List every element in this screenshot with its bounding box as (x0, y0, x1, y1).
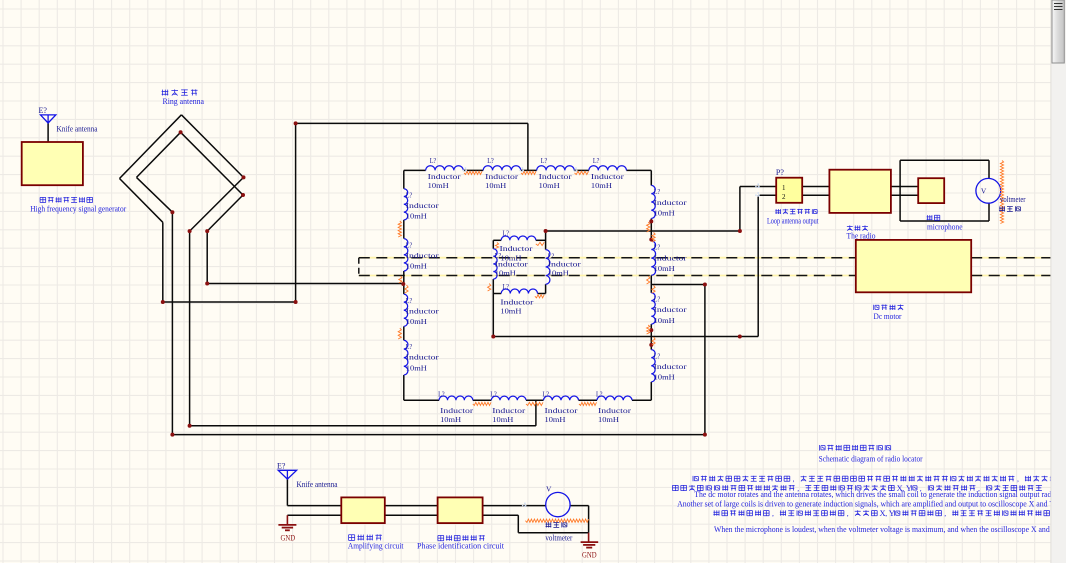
wire (651, 284, 705, 286)
wire (385, 514, 438, 516)
svg-text:Inductor: Inductor (539, 172, 573, 181)
svg-text:10mH: 10mH (406, 317, 428, 326)
inductor L? bottom row 3 (544, 396, 579, 400)
svg-text:10mH: 10mH (654, 316, 676, 325)
junction (294, 121, 298, 125)
wire ring antenna inner top-right (181, 132, 243, 195)
wire (650, 382, 652, 400)
svg-text:,: , (944, 509, 946, 518)
wire (802, 186, 829, 188)
svg-text:L?: L? (596, 390, 603, 399)
wire (521, 169, 537, 171)
svg-text:,: , (793, 475, 795, 484)
motor shaft dashed line upper (359, 257, 856, 259)
scrollbar track (1051, 0, 1066, 563)
ghost marker (755, 192, 761, 198)
inductor L? left column 2 (404, 239, 408, 271)
wire (287, 514, 341, 516)
knife antenna E? top-left symbol (41, 115, 56, 123)
label ring antenna chinese (162, 90, 169, 96)
inductor L? top row 2 (483, 166, 521, 171)
inductor L? left column 3 (404, 294, 408, 326)
error marker (647, 325, 650, 334)
wire (570, 505, 589, 507)
title chinese: schematic diagram of radio locator (820, 445, 826, 451)
dashed line left closure (358, 258, 360, 276)
svg-text:L?: L? (593, 156, 600, 165)
wire (740, 186, 776, 188)
svg-text:Dc motor: Dc motor (874, 311, 902, 321)
wire (802, 194, 829, 196)
label loop antenna output chinese (775, 209, 781, 214)
wire (493, 336, 758, 338)
wire (704, 285, 706, 435)
svg-text:High frequency signal generato: High frequency signal generator (30, 204, 126, 214)
svg-text:V: V (546, 484, 552, 493)
svg-text:,: , (1017, 475, 1019, 484)
svg-text:L?: L? (490, 390, 497, 399)
wire (492, 279, 494, 293)
wire (189, 231, 191, 426)
svg-text:Inductor: Inductor (495, 259, 529, 268)
svg-text:,: , (847, 509, 849, 518)
svg-text:E?: E? (277, 461, 286, 470)
error marker (398, 221, 401, 237)
error marker (526, 402, 543, 405)
svg-text:voltmeter: voltmeter (545, 534, 572, 543)
junction (161, 300, 165, 304)
svg-text:Inductor: Inductor (406, 307, 440, 316)
svg-text:Phase identification circuit: Phase identification circuit (417, 540, 505, 550)
svg-text:10mH: 10mH (406, 363, 428, 372)
ground GND bottom-right (588, 533, 590, 542)
junction (179, 130, 183, 134)
junction (649, 238, 653, 242)
svg-text:Inductor: Inductor (548, 259, 582, 268)
inductor L? bottom row 4 (597, 396, 632, 400)
svg-text:L?: L? (430, 156, 437, 165)
svg-text:L?: L? (654, 243, 661, 252)
error marker (652, 286, 655, 294)
junction (205, 229, 209, 233)
label amplifying circuit chinese (349, 535, 355, 541)
junction (170, 433, 174, 437)
junction (649, 343, 653, 347)
svg-text:Inductor: Inductor (428, 172, 462, 181)
inductor L? right column 3 (651, 293, 655, 324)
svg-text:10mH: 10mH (428, 181, 450, 190)
wire (632, 399, 651, 401)
svg-text:Inductor: Inductor (485, 172, 519, 181)
wire (650, 170, 652, 185)
ghost marker (755, 184, 761, 190)
svg-text:10mH: 10mH (548, 269, 570, 278)
wire (403, 375, 405, 400)
wire (493, 293, 501, 295)
svg-text:1: 1 (782, 184, 786, 192)
error marker (579, 402, 597, 405)
wire (162, 222, 164, 302)
label radio chinese (847, 225, 853, 230)
connector P1 box (776, 178, 802, 203)
voltmeter V top-right (976, 178, 1001, 203)
wire (536, 239, 546, 241)
knife antenna E? bottom symbol (278, 470, 296, 479)
svg-text:Inductor: Inductor (406, 251, 440, 260)
junction (401, 282, 405, 286)
svg-text:microphone: microphone (927, 222, 963, 232)
svg-text:Ring antenna: Ring antenna (163, 96, 205, 106)
error marker (488, 284, 491, 292)
wire (493, 239, 501, 241)
wire (757, 195, 759, 336)
svg-text:Inductor: Inductor (654, 305, 688, 314)
svg-text:The dc motor rotates and the a: The dc motor rotates and the antenna rot… (694, 490, 1065, 499)
microphone box (918, 178, 944, 203)
svg-text:10mH: 10mH (654, 208, 676, 217)
error marker (398, 328, 401, 339)
inductor L? left column 1 (404, 189, 408, 220)
error marker (535, 295, 544, 298)
dc motor box (856, 240, 971, 292)
wire (403, 271, 405, 294)
svg-text:L?: L? (503, 282, 510, 291)
wire (296, 122, 528, 124)
wire (538, 293, 546, 295)
wire (190, 425, 536, 427)
wire ring antenna outer top-left (120, 115, 182, 179)
svg-text:Loop antenna output: Loop antenna output (767, 216, 819, 226)
svg-text:10mH: 10mH (545, 415, 567, 424)
svg-text:Schematic diagram of radio loc: Schematic diagram of radio locator (819, 453, 923, 463)
svg-text:Inductor: Inductor (591, 172, 625, 181)
wire (626, 169, 651, 171)
wire (579, 399, 598, 401)
wire antenna mast (286, 479, 288, 506)
wire (492, 294, 494, 337)
inductor L? left column 4 (404, 340, 408, 375)
svg-text:L?: L? (487, 156, 494, 165)
junction (649, 219, 653, 223)
wire ring antenna inner top-left (137, 132, 181, 177)
inductor L? right column 2 (651, 241, 655, 275)
amplifying circuit box (341, 497, 385, 523)
svg-text:10mH: 10mH (539, 181, 561, 190)
inductor L? bottom row 1 (439, 396, 473, 400)
error marker (575, 171, 589, 174)
wire antenna mast (47, 123, 49, 142)
svg-text:Inductor: Inductor (500, 244, 534, 253)
svg-text:,: , (772, 509, 774, 518)
svg-text:V: V (981, 186, 987, 195)
svg-text:Inductor: Inductor (654, 198, 688, 207)
error marker (399, 276, 402, 283)
wire (172, 434, 705, 436)
junction (170, 210, 174, 214)
error marker (495, 243, 498, 249)
svg-text:Inductor: Inductor (545, 406, 579, 415)
wire (404, 399, 439, 401)
junction (491, 335, 495, 339)
wire (207, 283, 403, 285)
svg-text:Inductor: Inductor (406, 353, 440, 362)
error marker (521, 171, 536, 174)
svg-text:Inductor: Inductor (500, 297, 534, 306)
junction (703, 283, 707, 287)
wire (739, 187, 741, 232)
wire (758, 194, 776, 196)
wire (163, 301, 296, 303)
junction (738, 335, 742, 339)
junction (649, 328, 653, 332)
svg-text:Inductor: Inductor (598, 406, 632, 415)
wire (527, 123, 529, 170)
label voltmeter right chinese (999, 206, 1005, 211)
svg-text:10mH: 10mH (654, 264, 676, 273)
error marker (405, 285, 408, 293)
svg-text:L?: L? (541, 156, 548, 165)
svg-text:Inductor: Inductor (492, 406, 526, 415)
inductor L? top row 3 (537, 166, 575, 171)
svg-text:10mH: 10mH (406, 262, 428, 271)
wire (403, 326, 405, 340)
svg-text:2: 2 (782, 193, 786, 201)
wire (403, 220, 405, 239)
inductor L? top row 4 (589, 166, 627, 171)
paragraph chinese line 1 (693, 476, 698, 481)
wire (526, 399, 544, 401)
svg-text:,: , (885, 509, 887, 518)
svg-text:Knife antenna: Knife antenna (297, 479, 338, 489)
wire (545, 231, 547, 250)
wire (535, 400, 537, 426)
wire (403, 170, 405, 188)
svg-text:P?: P? (776, 168, 784, 177)
wire ring antenna closing outer (190, 177, 244, 231)
svg-text:Amplifying circuit: Amplifying circuit (348, 541, 404, 551)
svg-text:L?: L? (406, 296, 413, 305)
error marker (652, 233, 655, 243)
label microphone chinese (927, 215, 933, 220)
error marker (652, 337, 655, 345)
label dc motor chinese (874, 305, 879, 310)
svg-text:10mH: 10mH (440, 415, 462, 424)
wire (988, 203, 990, 221)
voltmeter V bottom (546, 492, 570, 516)
junction (188, 424, 192, 428)
wire (287, 505, 341, 507)
wire (988, 160, 990, 178)
radio box (829, 170, 891, 213)
wire (473, 399, 492, 401)
svg-text:L?: L? (406, 240, 413, 249)
svg-text:Inductor: Inductor (654, 362, 688, 371)
wire (574, 169, 589, 171)
svg-text:GND: GND (281, 534, 296, 543)
svg-text:voltmeter: voltmeter (1000, 195, 1026, 204)
svg-text:10mH: 10mH (492, 415, 514, 424)
junction (703, 433, 707, 437)
wire (295, 123, 297, 302)
svg-text:Another set of large coils is: Another set of large coils is driven to … (677, 499, 1066, 508)
wire (483, 505, 546, 507)
junction (241, 193, 245, 197)
wire (171, 212, 173, 434)
wire (650, 219, 652, 241)
wire (891, 194, 918, 196)
svg-text:L?: L? (543, 390, 550, 399)
wire (545, 284, 547, 293)
svg-text:10mH: 10mH (591, 181, 613, 190)
junction (544, 229, 548, 233)
svg-text:Inductor: Inductor (654, 253, 688, 262)
wire (483, 514, 519, 516)
ghost marker (520, 167, 526, 173)
svg-text:Y: Y (889, 508, 895, 518)
error marker (536, 242, 544, 245)
wire (900, 159, 989, 161)
paragraph chinese line 3 (713, 510, 719, 515)
inductor L? right column 4 (651, 350, 655, 382)
wire ring antenna outer bottom-left (120, 179, 163, 223)
inductor L? inner left (493, 249, 497, 279)
svg-text:L?: L? (503, 229, 510, 238)
junction (205, 282, 209, 286)
junction (242, 175, 246, 179)
inductor L? inner right (546, 250, 550, 285)
svg-text:Inductor: Inductor (440, 406, 474, 415)
svg-text:When the microphone is loudest: When the microphone is loudest, when the… (714, 525, 1066, 534)
error marker (464, 171, 482, 174)
svg-text:10mH: 10mH (406, 212, 428, 221)
ghost marker (573, 167, 579, 173)
wire (385, 505, 438, 507)
wire (900, 220, 989, 222)
wire (899, 160, 901, 221)
high frequency signal generator box (22, 142, 83, 185)
ghost marker (463, 167, 469, 173)
svg-text:10mH: 10mH (495, 269, 517, 278)
junction (738, 229, 742, 233)
inductor L? inner top (501, 236, 536, 240)
wire (206, 231, 208, 283)
wire ring antenna outer top-right (181, 115, 243, 178)
wire ring antenna inner bottom-left (137, 177, 173, 212)
svg-text:L?: L? (654, 187, 661, 196)
label high frequency generator chinese (40, 197, 46, 202)
svg-text:10mH: 10mH (654, 373, 676, 382)
motor shaft dashed line lower (359, 275, 856, 277)
ghost marker (522, 503, 528, 509)
wire (650, 324, 652, 350)
svg-text:GND: GND (582, 550, 597, 559)
error marker (647, 276, 650, 284)
wire (463, 169, 483, 171)
inductor L? inner bottom (501, 289, 537, 294)
inductor L? right column 1 (651, 185, 655, 218)
svg-text:Knife antenna: Knife antenna (57, 124, 98, 134)
wire (492, 240, 494, 248)
svg-text:L?: L? (654, 295, 661, 304)
label phase identification chinese (438, 536, 444, 541)
wire (517, 515, 519, 533)
svg-text:10mH: 10mH (598, 415, 620, 424)
svg-text:L?: L? (406, 342, 413, 351)
svg-text:L?: L? (406, 191, 413, 200)
wire (546, 230, 740, 232)
inductor L? top row 1 (426, 166, 464, 171)
junction (188, 229, 192, 233)
svg-text:Inductor: Inductor (406, 201, 440, 210)
error marker (647, 222, 650, 232)
phase identification circuit box (438, 497, 483, 523)
label voltmeter bottom chinese (546, 522, 552, 527)
svg-text:L?: L? (438, 390, 445, 399)
wire (518, 532, 588, 534)
svg-text:E?: E? (39, 106, 48, 115)
wire (650, 275, 652, 293)
wire (891, 186, 918, 188)
svg-text:L?: L? (654, 351, 661, 360)
error marker vertical right (1000, 161, 1003, 224)
ground GND bottom-left (286, 515, 288, 524)
wire (588, 506, 590, 533)
wire (404, 169, 426, 171)
error marker (525, 519, 588, 522)
svg-text:The radio: The radio (847, 231, 876, 241)
junction (294, 300, 298, 304)
paragraph chinese line 2 (673, 485, 679, 490)
wire ring antenna closing inner (207, 195, 243, 231)
inductor L? bottom row 2 (491, 396, 526, 400)
svg-text:10mH: 10mH (500, 306, 522, 315)
svg-text:10mH: 10mH (485, 181, 507, 190)
error marker (473, 402, 491, 405)
